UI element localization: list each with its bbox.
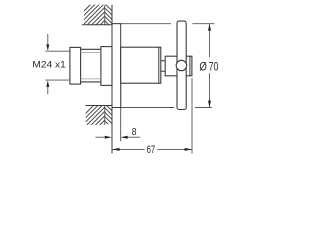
dim 67 line	[112, 148, 192, 150]
svg-text:M24 x1: M24 x1	[32, 59, 65, 70]
handle front spoke circle	[176, 60, 186, 70]
svg-text:Ø: Ø	[199, 60, 207, 74]
sleeve cap cylinder	[121, 47, 161, 83]
sleeve edge line	[158, 47, 160, 83]
dim Ø70 line	[209, 24, 211, 108]
dim 67 left arrow	[112, 148, 119, 151]
wall face line (lower segment, also extension for dims 8 and 67)	[111, 85, 113, 153]
extension line for dim 67 (handle front plane)	[191, 78, 193, 154]
wall face line (upper segment)	[111, 5, 113, 47]
dim M24x1 top arrow	[47, 34, 49, 45]
dim 67 right arrow	[185, 148, 192, 151]
wall finish face line (lower segment, extension for dim 8)	[120, 83, 122, 141]
wall bottom: layer divider line	[104, 106, 106, 125]
extension line bottom (rosette rim / dim Ø70)	[112, 107, 212, 109]
dim M24x1 extension lines	[45, 51, 69, 80]
wall top: section bottom edge	[82, 24, 112, 26]
threaded shank M24x1 outer lines	[81, 49, 101, 82]
svg-text:8: 8	[132, 126, 137, 138]
svg-text:70: 70	[209, 60, 219, 74]
wall section top: masonry hatch	[70, 0, 129, 25]
escutcheon rosette (side view disc)	[112, 24, 121, 108]
dim Ø70 bottom arrow	[208, 101, 211, 108]
cross handle bar	[177, 21, 186, 109]
wall top: layer divider line	[104, 5, 106, 25]
wall bottom: section top edge	[86, 105, 113, 107]
neck between sleeve and hub	[161, 61, 165, 71]
dim 8 line left arrow	[95, 136, 104, 138]
dim M24x1 bottom arrow	[47, 87, 49, 95]
valve body (in wall)	[101, 47, 112, 86]
svg-text:67: 67	[147, 144, 156, 156]
dim 8 right arrow	[128, 136, 141, 138]
hub front edge line	[189, 56, 191, 76]
thread collar	[70, 47, 81, 84]
wall section bottom: masonry hatch	[73, 100, 129, 126]
extension line top (rosette rim / dim Ø70)	[112, 23, 214, 25]
handle hub	[165, 56, 192, 76]
dim Ø70 top arrow	[208, 24, 211, 31]
thread root lines	[81, 52, 101, 79]
